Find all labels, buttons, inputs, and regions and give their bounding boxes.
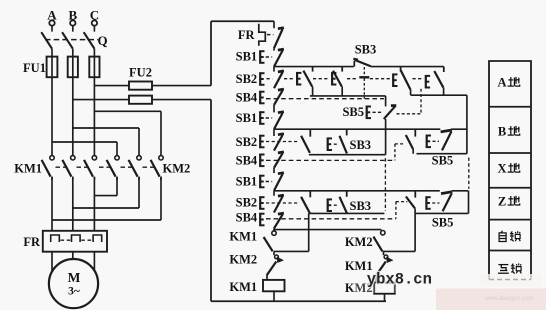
svg-text:SB1: SB1 (236, 50, 258, 64)
svg-text:SB2: SB2 (236, 72, 258, 86)
svg-text:www.diangon.com: www.diangon.com (484, 296, 534, 302)
svg-text:KM1: KM1 (229, 230, 257, 244)
svg-text:C: C (90, 8, 99, 23)
svg-text:SB4: SB4 (236, 211, 258, 225)
svg-text:SB5: SB5 (342, 105, 364, 119)
svg-text:KM1: KM1 (14, 162, 42, 176)
svg-text:X: X (497, 162, 506, 176)
svg-text:SB3: SB3 (355, 43, 377, 57)
svg-text:KM1: KM1 (229, 280, 257, 294)
svg-text:SB4: SB4 (236, 91, 258, 105)
svg-text:B: B (68, 8, 77, 23)
svg-text:KM2: KM2 (345, 235, 373, 249)
svg-text:M: M (68, 270, 81, 285)
svg-text:SB2: SB2 (236, 135, 258, 149)
svg-text:B: B (498, 125, 506, 139)
svg-text:FU2: FU2 (129, 66, 152, 80)
svg-text:SB3: SB3 (350, 199, 372, 213)
svg-text:KM2: KM2 (163, 162, 191, 176)
svg-text:FR: FR (23, 235, 41, 249)
svg-text:SB1: SB1 (236, 174, 258, 188)
svg-text:SB1: SB1 (236, 111, 258, 125)
svg-text:FR: FR (238, 28, 256, 42)
svg-text:SB4: SB4 (236, 154, 258, 168)
svg-text:KM2: KM2 (229, 253, 257, 267)
svg-text:SB5: SB5 (432, 154, 454, 168)
svg-text:A: A (47, 8, 57, 23)
svg-text:SB5: SB5 (432, 216, 454, 230)
svg-text:A: A (497, 76, 506, 90)
svg-text:Z: Z (498, 195, 506, 209)
svg-text:SB3: SB3 (350, 138, 372, 152)
svg-text:FU1: FU1 (23, 61, 46, 75)
svg-text:3~: 3~ (68, 286, 80, 298)
svg-text:SB2: SB2 (236, 196, 258, 210)
svg-text:ybx8.cn: ybx8.cn (367, 271, 432, 289)
svg-text:Q: Q (98, 33, 108, 48)
